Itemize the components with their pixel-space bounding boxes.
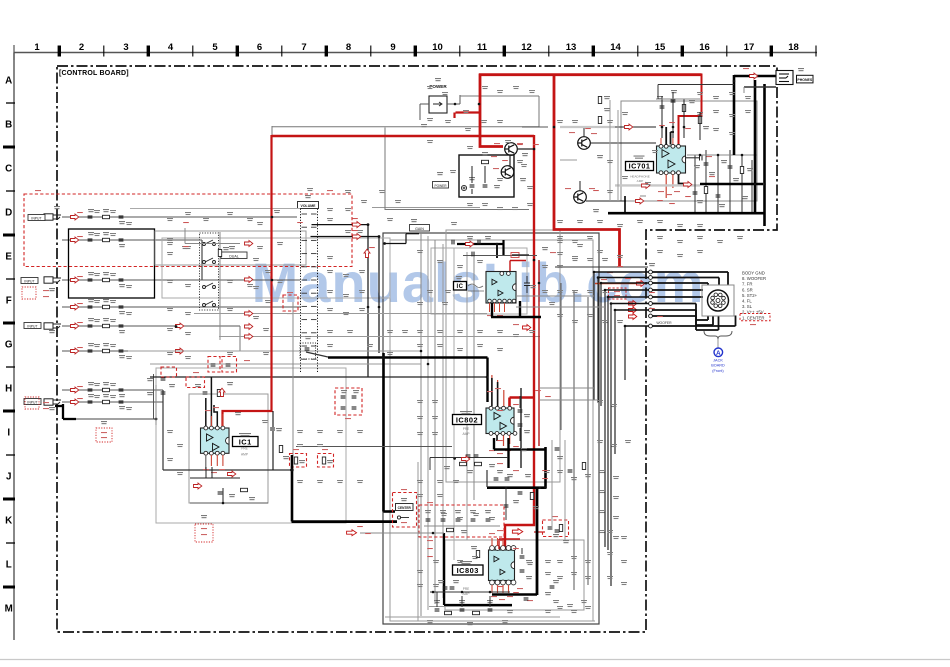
power wire (thick): [754, 80, 757, 213]
capacitor: [488, 609, 493, 611]
red power rail drop to Q901: [480, 74, 503, 147]
volume pin: [311, 279, 317, 281]
wire: [551, 440, 553, 530]
wire (thick): [507, 438, 509, 468]
connector pin list: [742, 271, 766, 321]
junction: [290, 468, 293, 471]
junction: [378, 306, 381, 309]
capacitor: [518, 492, 523, 494]
op-amp IC701b: [668, 160, 675, 168]
center ref: [401, 498, 407, 501]
svg-text:5. ST2+: 5. ST2+: [742, 293, 758, 298]
value label: [526, 560, 532, 563]
wire: [579, 181, 581, 191]
svg-text:7. FR: 7. FR: [742, 282, 753, 287]
value label: [88, 299, 94, 302]
svg-text:6. SR: 6. SR: [742, 287, 753, 292]
red arrow (phones): [750, 73, 758, 79]
wire: [687, 154, 757, 156]
volume pin: [311, 226, 317, 228]
wire: [62, 350, 420, 352]
part number label: [634, 156, 645, 159]
svg-text:INPUT: INPUT: [24, 279, 34, 283]
junction: [432, 591, 435, 594]
wire: [516, 295, 594, 297]
wire: [484, 166, 486, 183]
highlight box: [290, 454, 307, 468]
wire: [540, 387, 594, 389]
svg-text:IC: IC: [457, 284, 464, 290]
row tick (thin): [6, 190, 15, 192]
wire: [272, 411, 274, 427]
wire: [516, 306, 605, 308]
junction: [544, 486, 547, 489]
value label: [533, 506, 539, 509]
value label: [521, 448, 527, 451]
value label: [119, 244, 125, 247]
wire: [190, 502, 268, 504]
wire: [153, 374, 155, 419]
ground bus (thick): [291, 455, 294, 522]
signal wire: [707, 316, 709, 321]
value label: [604, 108, 610, 111]
value label: [425, 510, 431, 513]
voltage label: [607, 272, 613, 273]
ruler tick (thick): [58, 46, 61, 57]
jack INPUT 2: [44, 323, 61, 329]
value label: [563, 540, 569, 543]
wire: [430, 457, 508, 459]
svg-text:AMP: AMP: [463, 432, 470, 436]
jack INPUT 3: [44, 277, 61, 283]
wire: [162, 390, 164, 470]
signal arrow: [245, 311, 253, 317]
ruler tick (thick): [236, 46, 239, 57]
value label: [438, 580, 444, 583]
signal arrow: [353, 234, 361, 240]
center inner box: [390, 240, 593, 621]
page edge line: [0, 659, 950, 661]
capacitor: [341, 407, 346, 409]
voltage label: [614, 291, 620, 292]
svg-text:PHONES: PHONES: [797, 78, 812, 82]
power switch S901: [429, 96, 447, 113]
capacitor C810: [524, 276, 530, 293]
capacitor C703: [660, 106, 665, 108]
voltage label: [487, 315, 493, 316]
wire: [586, 200, 626, 202]
signal arrow: [71, 387, 79, 393]
value label: [526, 576, 532, 579]
svg-text:INPUT: INPUT: [27, 324, 37, 328]
junction: [533, 148, 536, 151]
value label: [119, 221, 125, 224]
value label: [703, 126, 709, 129]
voltage label: [494, 143, 500, 144]
signal wire: [695, 316, 697, 330]
signal wire: [598, 277, 650, 279]
wire: [609, 100, 611, 201]
junction: [427, 363, 430, 366]
signal wire riser: [607, 297, 609, 550]
signal bus (thick): [491, 316, 541, 318]
red pin stubs IC802: [492, 375, 510, 446]
capacitor: [505, 478, 510, 480]
wire: [55, 405, 64, 407]
svg-text:J: J: [6, 472, 11, 483]
value label: [557, 456, 563, 459]
jack label box: [28, 215, 45, 221]
resistor: [103, 215, 110, 218]
wire: [296, 446, 452, 448]
signal arrow: [636, 198, 644, 204]
volume label box: [298, 202, 319, 209]
voltage label: [666, 194, 672, 195]
junction: [271, 279, 274, 282]
resistor R705: [698, 117, 701, 124]
transistor ref Q702: [593, 209, 599, 212]
resistor: [447, 528, 454, 531]
feedback loop wire: [69, 229, 155, 298]
value label: [88, 382, 94, 385]
value label: [697, 200, 703, 203]
op-amp IC801 (tone amp): [486, 272, 516, 304]
wire: [461, 596, 463, 607]
wire (thick): [492, 593, 537, 596]
value label: [283, 456, 289, 459]
junction: [432, 532, 435, 535]
wire: [239, 326, 241, 351]
voltage label: [322, 449, 328, 450]
volume pin: [302, 213, 308, 215]
wire: [161, 469, 163, 471]
ruler tick (thick): [147, 46, 150, 57]
wire: [62, 404, 64, 419]
resistor: [473, 611, 480, 614]
value label: [461, 530, 467, 533]
wire: [62, 325, 240, 327]
capacitor: [352, 396, 357, 398]
value label: [119, 311, 125, 314]
junction: [461, 591, 464, 594]
signal arrow: [462, 456, 470, 462]
wire: [520, 388, 522, 468]
wire (thick): [444, 604, 512, 606]
voltage label: [101, 432, 107, 433]
voltage label: [401, 489, 407, 490]
highlight box: [318, 454, 334, 468]
resistor: [704, 187, 707, 194]
svg-text:INPUT: INPUT: [31, 216, 41, 220]
op-amp IC803a: [494, 556, 499, 562]
jack ref label: [54, 206, 60, 209]
junction: [290, 469, 293, 472]
black pin wires IC802: [492, 378, 498, 441]
wire: [436, 592, 438, 607]
signal wire: [695, 310, 697, 325]
value label: [453, 580, 459, 583]
wire: [62, 401, 163, 403]
ruler tick (thick): [325, 46, 328, 57]
ground bus (thick): [487, 486, 546, 489]
op-amp IC1a: [207, 434, 214, 441]
signal arrow: [245, 241, 253, 247]
signal wire: [696, 319, 708, 321]
capacitor: [441, 519, 446, 521]
red arrow: [523, 325, 531, 331]
signal arrow: [176, 348, 184, 354]
ruler left end tick: [13, 45, 15, 60]
wire: [292, 302, 294, 455]
wire (thick): [493, 438, 495, 450]
highlight box (center level): [419, 505, 504, 537]
capacitor: [88, 306, 93, 308]
junction: [717, 154, 720, 157]
value label: [524, 414, 530, 417]
capacitor: [504, 505, 509, 507]
value label: [103, 318, 109, 321]
junction: [383, 242, 386, 245]
capacitor: [524, 598, 529, 600]
svg-text:M: M: [5, 604, 13, 615]
resistor: [476, 551, 479, 558]
POWER ON label box: [433, 182, 449, 189]
highlight box CENTER pin: [740, 314, 770, 321]
volume pin: [302, 305, 308, 307]
voltage label: [750, 324, 756, 325]
highlight box (relay): [283, 295, 298, 311]
svg-text:IC802: IC802: [456, 416, 478, 425]
wire: [62, 389, 163, 391]
power bus (thick): [328, 356, 488, 359]
signal wire: [605, 289, 650, 291]
capacitor: [119, 401, 124, 403]
wire: [519, 428, 521, 441]
IC803 section box: [445, 540, 584, 610]
signal wire riser: [597, 278, 599, 404]
voltage label: [287, 313, 293, 314]
wire: [201, 240, 203, 280]
volume block VR: [301, 209, 318, 373]
junction: [683, 126, 686, 129]
resistor: [294, 457, 297, 464]
IC1 top pins: [204, 426, 225, 430]
signal wire riser: [604, 290, 606, 547]
signal arrow: [71, 304, 79, 310]
wire: [459, 95, 461, 104]
svg-text:AMP: AMP: [637, 179, 644, 183]
value label: [467, 236, 473, 239]
red rail down-center: [505, 135, 534, 549]
ribbon wire: [560, 126, 615, 128]
svg-text:[CONTROL BOARD]: [CONTROL BOARD]: [59, 70, 129, 77]
wire: [661, 96, 663, 138]
transistor Q902: [501, 166, 514, 179]
svg-text:1: 1: [34, 42, 40, 53]
part number: [460, 561, 472, 564]
wire: [717, 339, 719, 348]
jack ref J701: [798, 68, 804, 71]
value label: [657, 96, 663, 99]
resistor: [103, 349, 110, 352]
ruler tick (thick): [414, 46, 417, 57]
svg-text:GAIN: GAIN: [415, 227, 424, 231]
signal wire riser: [593, 272, 595, 400]
center jack symbol: [397, 516, 409, 519]
volume pin: [302, 239, 308, 241]
wire: [505, 487, 507, 520]
highlight box CENTER: [393, 493, 417, 528]
wire: [694, 155, 696, 212]
wire: [555, 266, 648, 268]
svg-text:E: E: [5, 252, 12, 263]
voltage label: [201, 534, 207, 535]
svg-text:4. FL: 4. FL: [742, 299, 752, 304]
volume pin: [311, 345, 317, 347]
junction: [222, 502, 225, 505]
wire: [486, 470, 488, 487]
ruler tick (thick): [503, 46, 506, 57]
svg-text:VOLUME: VOLUME: [301, 204, 317, 208]
jack INPUT 4: [44, 214, 61, 220]
row tick (thin): [6, 278, 15, 280]
junction: [155, 418, 158, 421]
junction: [538, 282, 541, 285]
op-amp IC801b: [498, 290, 503, 296]
wire: [205, 467, 207, 478]
signal wire: [652, 296, 703, 298]
jack connector CN801: [708, 290, 729, 311]
capacitor: [483, 185, 488, 187]
svg-text:18: 18: [788, 42, 799, 53]
wire: [406, 233, 419, 235]
signal arrow: [176, 323, 184, 329]
center section box: [383, 233, 599, 624]
highlight box voltage: [609, 288, 627, 299]
value label: [485, 236, 491, 239]
wire: [496, 244, 498, 258]
capacitor: [341, 396, 346, 398]
wire: [62, 216, 297, 218]
resistor: [279, 446, 282, 453]
signal arrow: [629, 307, 637, 313]
value label: [585, 474, 591, 477]
wire: [502, 240, 504, 255]
power switch arrow: [433, 102, 442, 106]
value label: [103, 382, 109, 385]
capacitor: [478, 240, 480, 245]
wire: [429, 606, 512, 608]
IC701 bottom pins: [659, 171, 680, 175]
voltage label: [497, 453, 503, 454]
volume pin: [302, 332, 308, 334]
value label: [147, 378, 153, 381]
resistor: [103, 278, 110, 281]
IC701 top pins: [659, 144, 680, 148]
svg-text:5: 5: [212, 42, 218, 53]
svg-text:H: H: [5, 384, 12, 395]
IC1 section box: [189, 394, 268, 503]
value label: [427, 620, 433, 623]
svg-text:F: F: [6, 296, 12, 307]
value label: [195, 384, 201, 387]
junction: [597, 276, 600, 279]
voltage label: [517, 588, 523, 589]
wire IC1 pin: [205, 455, 207, 470]
row tick (thin): [6, 454, 15, 456]
wire: [205, 398, 207, 426]
wire: [372, 207, 480, 209]
svg-text:IC803: IC803: [457, 566, 479, 575]
voltage label: [507, 596, 513, 597]
capacitor: [548, 527, 553, 529]
signal wire riser: [587, 297, 589, 585]
signal arrow: [71, 348, 79, 354]
value label: [235, 412, 241, 415]
voltage label: [614, 295, 620, 296]
wire: [271, 126, 273, 136]
red arrow (power): [512, 529, 522, 535]
junction: [553, 126, 556, 129]
wire: [429, 458, 431, 471]
wire: [743, 87, 745, 93]
ruler tick (thin): [192, 46, 194, 57]
value label: [502, 620, 508, 623]
junction: [699, 154, 702, 157]
wire: [717, 155, 719, 212]
capacitor: [518, 424, 523, 426]
power bus (thick): [382, 353, 385, 512]
ruler tick (thin): [637, 46, 639, 57]
IC label IC801: [454, 282, 467, 291]
value label: [119, 330, 125, 333]
wire (thick): [491, 303, 493, 317]
value label: [694, 165, 700, 168]
value label: [119, 355, 125, 358]
capacitor: [119, 306, 124, 308]
value label: [103, 272, 109, 275]
voltage label: [345, 418, 351, 419]
voltage label: [193, 372, 199, 373]
volume pin: [311, 332, 317, 334]
value label: [530, 285, 536, 288]
capacitor: [443, 587, 448, 589]
svg-text:CENTER: CENTER: [398, 506, 412, 510]
signal wire: [652, 289, 703, 291]
volume pin: [311, 319, 317, 321]
wire: [150, 363, 421, 365]
wire: [434, 240, 436, 604]
value label: [497, 470, 503, 473]
value label: [742, 196, 748, 199]
resistor: [103, 400, 110, 403]
capacitor: [305, 348, 310, 350]
highlight box: [186, 377, 205, 388]
capacitor: [211, 364, 216, 366]
value label: [467, 470, 473, 473]
part number: [456, 276, 462, 279]
highlight box (input): [22, 287, 36, 299]
signal arrow: [228, 471, 236, 477]
capacitor: [520, 570, 525, 572]
transistor ref Q701: [597, 155, 603, 158]
relay contact: [203, 258, 216, 264]
wire: [214, 405, 217, 426]
svg-text:BOARD: BOARD: [711, 364, 725, 368]
value label: [103, 209, 109, 212]
voltage label: [513, 324, 519, 325]
power on ref: [437, 172, 443, 175]
